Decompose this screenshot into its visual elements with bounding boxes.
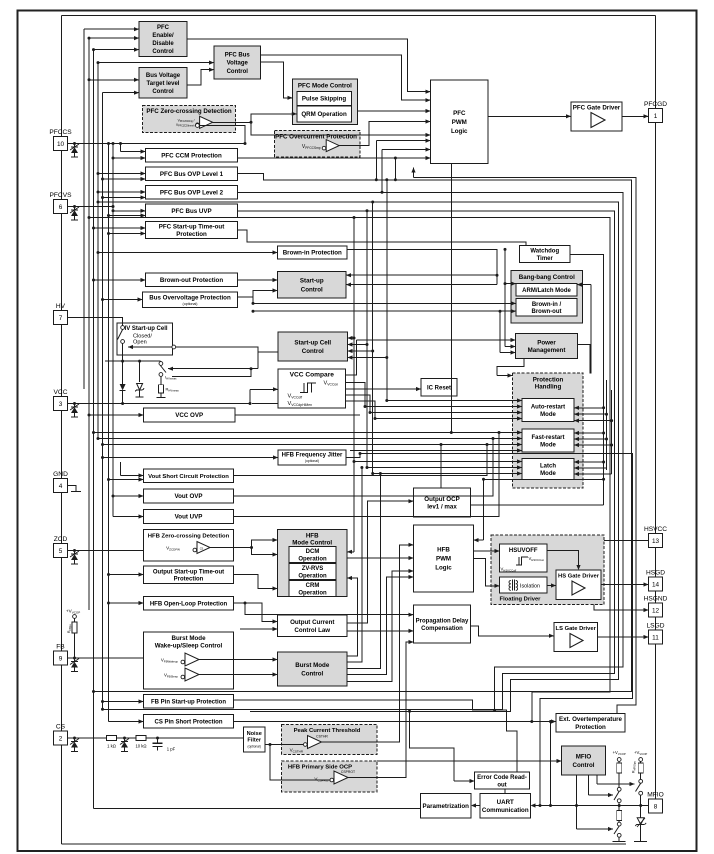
svg-text:HFB Frequency Jitter: HFB Frequency Jitter: [282, 453, 343, 459]
svg-text:PFC Gate Driver: PFC Gate Driver: [573, 104, 621, 111]
svg-text:CS Pin Short Protection: CS Pin Short Protection: [154, 719, 222, 725]
svg-text:VCC OVP: VCC OVP: [175, 412, 203, 419]
svg-text:Communication: Communication: [482, 807, 529, 814]
svg-text:8: 8: [654, 803, 658, 810]
svg-text:HFB Zero-crossing Detection: HFB Zero-crossing Detection: [148, 533, 230, 539]
svg-text:PFC: PFC: [453, 110, 466, 117]
svg-text:UART: UART: [497, 799, 514, 806]
svg-text:Brown-out: Brown-out: [532, 309, 562, 315]
svg-text:Control: Control: [573, 762, 595, 769]
svg-text:Latch: Latch: [540, 464, 556, 470]
svg-text:Control: Control: [227, 69, 249, 75]
svg-text:PFC Bus: PFC Bus: [225, 53, 251, 59]
svg-text:PFC Mode Control: PFC Mode Control: [298, 82, 352, 89]
svg-text:10: 10: [57, 141, 65, 148]
svg-text:PWM: PWM: [436, 556, 451, 563]
svg-text:5: 5: [59, 548, 63, 555]
svg-text:PFC Bus OVP Level 2: PFC Bus OVP Level 2: [160, 189, 224, 196]
svg-text:(optional): (optional): [183, 302, 198, 306]
svg-text:Compensation: Compensation: [421, 626, 463, 632]
svg-text:1 pF: 1 pF: [167, 747, 176, 752]
svg-text:Noise: Noise: [247, 731, 262, 737]
svg-text:PWM: PWM: [452, 119, 467, 126]
svg-text:Pulse Skipping: Pulse Skipping: [302, 96, 347, 103]
svg-text:+VVCOP: +VVCOP: [66, 609, 80, 615]
svg-text:9: 9: [59, 655, 63, 662]
svg-text:FB Pin Start-up Protection: FB Pin Start-up Protection: [151, 699, 226, 705]
svg-text:HFB Open-Loop Protection: HFB Open-Loop Protection: [150, 601, 228, 607]
svg-text:MFIO: MFIO: [647, 792, 663, 799]
svg-text:14: 14: [652, 581, 660, 588]
svg-text:Brown-out Protection: Brown-out Protection: [160, 277, 223, 284]
svg-text:Target level: Target level: [147, 81, 180, 87]
svg-text:Management: Management: [528, 347, 566, 354]
svg-text:Operation: Operation: [298, 573, 327, 579]
svg-text:Wake-up/Sleep Control: Wake-up/Sleep Control: [155, 642, 223, 649]
svg-text:VCC: VCC: [54, 389, 68, 396]
svg-text:PFCCS: PFCCS: [49, 129, 72, 136]
svg-text:Filter: Filter: [247, 738, 261, 744]
svg-text:PFCGD: PFCGD: [644, 101, 667, 108]
svg-text:PFC: PFC: [157, 25, 170, 31]
svg-text:2: 2: [59, 735, 63, 742]
svg-text:Output Current: Output Current: [290, 619, 334, 626]
svg-text:7: 7: [59, 315, 63, 322]
svg-text:Burst Mode: Burst Mode: [295, 662, 330, 669]
svg-text:Logic: Logic: [451, 128, 468, 135]
svg-text:GND: GND: [53, 471, 68, 478]
svg-text:Protection: Protection: [176, 231, 207, 238]
svg-text:Bus Overvoltage Protection: Bus Overvoltage Protection: [149, 294, 231, 301]
svg-text:DCM: DCM: [306, 549, 320, 555]
svg-text:Floating Driver: Floating Driver: [500, 597, 542, 603]
svg-text:Control: Control: [152, 89, 174, 95]
svg-text:Logic: Logic: [435, 565, 452, 572]
svg-text:CS: CS: [200, 546, 204, 550]
svg-text:Vout OVP: Vout OVP: [174, 493, 202, 500]
svg-text:Vout UVP: Vout UVP: [175, 514, 203, 521]
svg-text:HV Start-up Cell: HV Start-up Cell: [122, 326, 168, 332]
svg-text:Disable: Disable: [152, 41, 174, 47]
svg-text:Operation: Operation: [298, 556, 327, 562]
svg-text:Timer: Timer: [537, 256, 554, 262]
svg-text:+VVCOP: +VVCOP: [613, 750, 626, 756]
svg-text:Control: Control: [152, 49, 174, 55]
svg-text:ZV-RVS: ZV-RVS: [302, 566, 324, 572]
svg-text:(optional): (optional): [248, 745, 261, 749]
svg-text:10 kΩ: 10 kΩ: [135, 744, 146, 749]
svg-text:Brown-in Protection: Brown-in Protection: [283, 250, 342, 257]
svg-text:Start-up Cell: Start-up Cell: [294, 339, 331, 346]
svg-text:(optional): (optional): [305, 459, 319, 463]
svg-text:Error Code Read-: Error Code Read-: [477, 775, 527, 781]
svg-text:PFCVS: PFCVS: [50, 192, 73, 199]
svg-text:Output Start-up Time-out: Output Start-up Time-out: [153, 569, 224, 575]
svg-text:Start-up: Start-up: [300, 278, 324, 285]
svg-text:12: 12: [652, 607, 660, 614]
svg-text:Power: Power: [537, 339, 556, 346]
svg-text:3: 3: [59, 401, 63, 408]
svg-text:FB: FB: [56, 644, 65, 651]
svg-text:HFB: HFB: [437, 547, 450, 554]
svg-text:Control: Control: [301, 286, 323, 293]
svg-text:HV: HV: [56, 303, 66, 310]
svg-text:1: 1: [654, 113, 658, 120]
svg-text:Control Law: Control Law: [294, 627, 330, 634]
svg-text:13: 13: [652, 538, 660, 545]
svg-text:Enable/: Enable/: [152, 33, 174, 39]
svg-text:LS Gate Driver: LS Gate Driver: [556, 626, 597, 632]
svg-text:VPFCZCDtrig /: VPFCZCDtrig /: [178, 119, 195, 124]
svg-text:Protection: Protection: [575, 724, 606, 731]
svg-text:Watchdog: Watchdog: [530, 249, 559, 255]
svg-text:1 kΩ: 1 kΩ: [107, 744, 116, 749]
svg-text:MFIO: MFIO: [576, 754, 592, 761]
svg-text:Peak Current Threshold: Peak Current Threshold: [294, 728, 361, 734]
svg-text:ZCD: ZCD: [54, 536, 68, 543]
svg-text:Mode: Mode: [540, 412, 556, 418]
svg-text:Burst Mode: Burst Mode: [171, 635, 206, 642]
svg-text:4: 4: [59, 483, 63, 490]
svg-text:QRM Operation: QRM Operation: [301, 111, 347, 118]
svg-text:HS Gate Driver: HS Gate Driver: [558, 574, 600, 580]
svg-text:PFC CCM Protection: PFC CCM Protection: [161, 152, 222, 159]
svg-text:Auto-restart: Auto-restart: [531, 405, 565, 411]
svg-text:Parametrization: Parametrization: [423, 803, 470, 810]
svg-text:+VVCOP: +VVCOP: [634, 750, 647, 756]
svg-text:PFC Zero-crossing Detection: PFC Zero-crossing Detection: [146, 108, 231, 115]
svg-text:Handling: Handling: [535, 384, 562, 391]
svg-text:VCC Compare: VCC Compare: [290, 372, 335, 379]
svg-text:CRM: CRM: [306, 583, 320, 589]
svg-text:Operation: Operation: [298, 590, 327, 596]
svg-text:Mode Control: Mode Control: [292, 539, 332, 546]
svg-text:HSVCC: HSVCC: [644, 526, 667, 533]
svg-text:Brown-in /: Brown-in /: [532, 302, 562, 308]
svg-text:Fast-restart: Fast-restart: [531, 435, 564, 441]
svg-text:Open: Open: [133, 339, 147, 345]
svg-text:Control: Control: [301, 670, 323, 677]
svg-text:IC Reset: IC Reset: [427, 385, 451, 391]
svg-text:HSUVOFF: HSUVOFF: [509, 548, 538, 554]
svg-text:Control: Control: [302, 348, 324, 355]
svg-text:11: 11: [652, 634, 659, 641]
svg-text:HFB: HFB: [306, 532, 319, 539]
svg-text:VPFCZCDthresh: VPFCZCDthresh: [176, 123, 195, 128]
svg-text:Bus Voltage: Bus Voltage: [146, 73, 181, 79]
svg-text:out: out: [497, 782, 506, 788]
svg-text:Bang-bang Control: Bang-bang Control: [519, 274, 575, 281]
svg-text:lev1 / max: lev1 / max: [427, 504, 457, 511]
svg-text:6: 6: [59, 204, 63, 211]
svg-text:Isolation: Isolation: [520, 583, 540, 589]
svg-text:Vout Short Circuit Protection: Vout Short Circuit Protection: [148, 474, 229, 480]
svg-text:HSGND: HSGND: [644, 596, 668, 603]
svg-text:Voltage: Voltage: [227, 61, 249, 67]
svg-text:Protection: Protection: [174, 577, 204, 583]
svg-text:CSPROT: CSPROT: [341, 770, 355, 774]
svg-text:PFC Overcurrent Protection: PFC Overcurrent Protection: [275, 133, 357, 140]
svg-text:PFC Bus OVP Level 1: PFC Bus OVP Level 1: [160, 171, 224, 178]
svg-text:ARM/Latch Mode: ARM/Latch Mode: [522, 288, 571, 294]
svg-text:HSGD: HSGD: [646, 570, 665, 577]
svg-text:Protection: Protection: [533, 377, 564, 384]
svg-text:Propagation Delay: Propagation Delay: [416, 618, 469, 624]
svg-text:CS: CS: [56, 724, 66, 731]
svg-text:PFC Bus UVP: PFC Bus UVP: [171, 208, 211, 215]
svg-text:Mode: Mode: [540, 471, 556, 477]
svg-text:PFC Start-up Time-out: PFC Start-up Time-out: [159, 224, 225, 231]
svg-text:Ext. Overtemperature: Ext. Overtemperature: [559, 716, 622, 723]
svg-text:Output OCP: Output OCP: [424, 496, 459, 503]
svg-text:CSTHR: CSTHR: [316, 734, 328, 738]
svg-text:LSGD: LSGD: [647, 623, 665, 630]
svg-text:Mode: Mode: [540, 442, 556, 448]
